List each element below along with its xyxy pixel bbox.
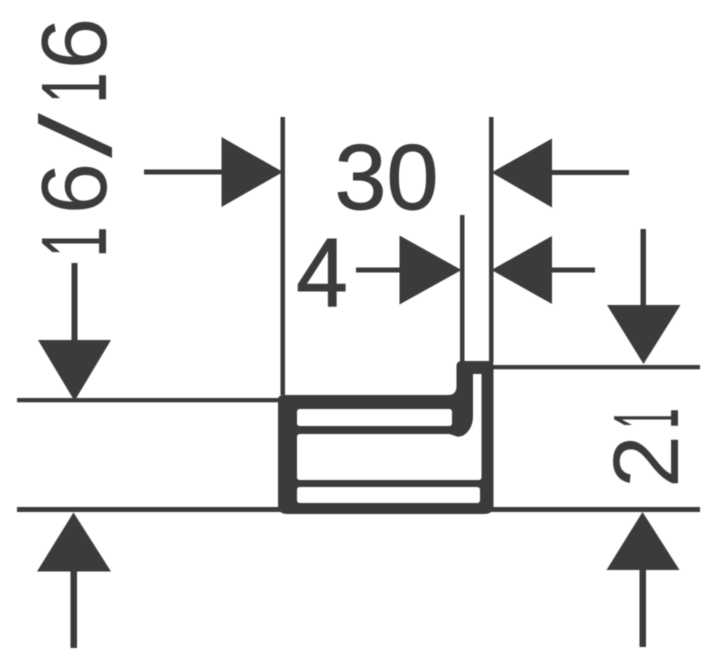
svg-text:6: 6 bbox=[22, 163, 126, 215]
svg-text:4: 4 bbox=[296, 219, 348, 328]
svg-text:1: 1 bbox=[22, 73, 126, 104]
svg-text:30: 30 bbox=[335, 125, 439, 229]
svg-text:1: 1 bbox=[22, 227, 126, 258]
svg-text:6: 6 bbox=[22, 18, 126, 70]
svg-text:1: 1 bbox=[594, 409, 698, 429]
svg-text:2: 2 bbox=[594, 435, 698, 488]
